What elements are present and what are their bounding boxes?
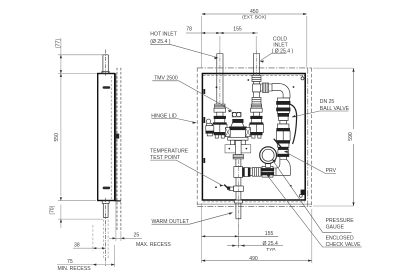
leader pressure gauge	[272, 160, 351, 233]
dim line 450	[202, 13, 307, 15]
svg-text:(EXT. BOX): (EXT. BOX)	[242, 15, 267, 20]
leader PRV	[285, 152, 337, 174]
svg-text:( Ø 25.4 ): ( Ø 25.4 )	[272, 48, 294, 54]
arrows 78	[202, 32, 206, 34]
side view bottom outlet pipe	[102, 201, 109, 218]
svg-text:TEMPERATURE: TEMPERATURE	[150, 148, 189, 154]
ext lines 590	[313, 68, 354, 206]
lid phantom outline	[197, 68, 311, 207]
leader DN25 ball valve	[292, 111, 348, 117]
branch ribbed union	[262, 83, 268, 92]
side view top pipe flange	[102, 72, 109, 74]
leader warm outlet	[152, 213, 233, 225]
svg-text:TEST POINT: TEST POINT	[150, 155, 180, 161]
wall front face dashed lines	[116, 68, 118, 230]
ext/dim lines 78 & 155 top	[220, 36, 256, 52]
ext line box top left	[58, 73, 97, 75]
hot side drain tap	[206, 119, 214, 136]
leader temperature test point	[150, 160, 220, 184]
svg-text:490: 490	[249, 256, 258, 262]
cold ribbed coupling	[252, 97, 261, 104]
temperature test point stub	[229, 187, 234, 191]
tee right union nut	[243, 168, 250, 177]
pressure gauge	[260, 147, 277, 164]
svg-text:590: 590	[348, 132, 354, 141]
bottom-left recess dimensions	[57, 202, 142, 267]
arrows 490	[202, 260, 206, 262]
ball valve handle	[289, 104, 297, 144]
door latch on side view	[115, 134, 119, 139]
ext lines bottom 155	[202, 203, 239, 263]
leader hot inlet	[150, 44, 217, 57]
hot inlet valve stack	[213, 104, 227, 138]
enclosed check valve	[262, 166, 273, 177]
cold tee to branch	[253, 84, 261, 92]
lid catch top right	[301, 75, 304, 80]
svg-text:HINGE LID: HINGE LID	[151, 113, 177, 119]
arrowhead test point	[220, 184, 224, 186]
arrows 25 (outside)	[113, 237, 116, 239]
warm outlet pipe mid	[236, 177, 241, 186]
dimension line vertical 550 chain	[60, 38, 62, 228]
svg-text:[70]: [70]	[50, 205, 56, 214]
dim line bottom 155	[202, 235, 278, 237]
dim line 490	[202, 260, 312, 262]
arrows 38	[93, 247, 96, 249]
column union nut	[278, 113, 289, 116]
svg-text:550: 550	[54, 133, 60, 142]
svg-text:25: 25	[134, 232, 140, 238]
gauge stub	[266, 163, 271, 167]
lid lock bottom right	[299, 190, 306, 198]
screw dots inside box	[215, 79, 294, 188]
side view top inlet pipe	[103, 55, 108, 74]
svg-text:ENCLOSED: ENCLOSED	[326, 235, 354, 241]
arrow at box-bottom ext	[60, 197, 62, 200]
arrows at box-top ext	[60, 70, 62, 73]
arrows 450	[202, 13, 206, 15]
svg-text:155: 155	[233, 27, 242, 33]
side view door bottom tick	[115, 200, 121, 202]
svg-text:155: 155	[265, 231, 274, 237]
side view bottom pipe centerline	[105, 198, 107, 266]
ext line pipe bottom left	[58, 218, 103, 220]
upper pipe clamp on side panel	[103, 86, 111, 89]
arrow at pipe-bottom ext	[60, 219, 62, 222]
side view door front line	[115, 74, 117, 202]
side view top pipe centerline	[105, 50, 107, 77]
hinge knuckle marks left edge	[203, 89, 205, 163]
cold pipe below tee	[253, 92, 259, 97]
dim line dia 25.4	[227, 245, 283, 247]
arrows 155 bottom	[202, 235, 206, 237]
svg-text:78: 78	[186, 27, 192, 33]
svg-text:COLD: COLD	[273, 36, 287, 42]
arrows 155 top	[220, 32, 224, 34]
hot inlet pipe	[217, 54, 223, 105]
warm outlet centerline	[237, 160, 239, 247]
cold pipe segment	[253, 82, 259, 85]
cold inlet pipe	[253, 54, 259, 76]
side view door inner hidden line	[110, 76, 112, 199]
hot pipe centerline	[219, 51, 221, 113]
arrowhead pressure gauge	[272, 159, 276, 162]
DN25 ball valve	[277, 98, 289, 113]
dim line 25 max recess	[109, 237, 142, 239]
svg-text:BALL VALVE: BALL VALVE	[320, 106, 350, 112]
leader enclosed check valve	[267, 175, 362, 247]
column lower hex	[278, 150, 289, 155]
svg-text:(Ø 25.4 ): (Ø 25.4 )	[150, 39, 170, 45]
branch elbow	[272, 84, 290, 98]
arrowhead cold inlet	[260, 61, 264, 63]
svg-text:75: 75	[67, 259, 73, 265]
dim line 590	[353, 68, 355, 206]
arrows 75	[93, 264, 96, 266]
side view box body	[98, 74, 115, 201]
outlet short pipe	[236, 159, 241, 167]
arrows 590	[352, 68, 354, 72]
TMV 2500 mixing valve	[225, 112, 250, 144]
arrowhead PRV	[284, 151, 288, 153]
warm outlet pipe lower	[236, 192, 241, 201]
leader cold inlet	[260, 53, 286, 61]
svg-text:MIN. RECESS: MIN. RECESS	[58, 266, 92, 272]
column pipe	[280, 121, 287, 124]
arrowhead DN25	[292, 115, 296, 117]
ext line for 38 left	[92, 225, 94, 251]
arrowhead check valve	[266, 174, 270, 177]
svg-text:GAUGE: GAUGE	[326, 224, 345, 230]
svg-text:CHECK VALVE: CHECK VALVE	[326, 242, 362, 248]
branch horizontal pipe to right column	[260, 84, 272, 91]
svg-text:WARM OUTLET: WARM OUTLET	[152, 219, 189, 225]
svg-text:[77]: [77]	[56, 39, 62, 48]
bottom elbow to horizontal run	[276, 160, 290, 176]
cold collar below box top	[252, 75, 261, 81]
ext line box bottom left	[58, 200, 96, 202]
dim line 75 min recess	[57, 264, 115, 266]
arrowhead warm outlet	[229, 212, 233, 214]
column hex	[279, 116, 288, 120]
cold pipe centerline	[256, 51, 258, 113]
outlet ribbed fitting	[233, 155, 243, 159]
ext lines 25	[115, 202, 117, 241]
TMV mounting plate	[225, 145, 251, 153]
outlet tee	[234, 167, 243, 178]
svg-text:TMV 2500: TMV 2500	[154, 76, 178, 82]
column lower pipe	[280, 157, 287, 160]
run ribbed coupling	[252, 168, 261, 177]
ext lines 490	[311, 209, 313, 263]
PRV	[274, 124, 290, 150]
ext line 75 right	[114, 245, 116, 267]
warm outlet pipe below box	[236, 200, 241, 219]
front box	[202, 74, 305, 201]
svg-text:MAX. RECESS: MAX. RECESS	[136, 242, 171, 248]
arrowhead TMV	[228, 110, 232, 112]
side view bottom pipe hidden extension	[103, 220, 108, 259]
svg-text:TYP.: TYP.	[266, 247, 276, 252]
test point cross fitting	[234, 186, 244, 192]
dim line 38	[73, 247, 106, 249]
TMV outlet pipe upper	[236, 141, 242, 155]
ext line pipe top	[58, 54, 103, 56]
leader TMV 2500	[152, 81, 231, 110]
svg-text:HOT INLET: HOT INLET	[150, 31, 177, 37]
svg-text:PRV: PRV	[326, 168, 337, 174]
horizontal run pipe	[249, 168, 277, 175]
svg-text:PRESSURE: PRESSURE	[326, 218, 355, 224]
lower pipe clamp on side panel	[103, 187, 111, 190]
arrowhead hinge lid	[192, 122, 196, 124]
svg-text:38: 38	[74, 243, 80, 249]
cold inlet valve stack	[249, 104, 263, 138]
leader hinge lid	[151, 118, 195, 122]
svg-text:DN 25: DN 25	[320, 99, 335, 105]
arrowhead hot inlet	[214, 57, 218, 59]
arrows dia (outside)	[232, 245, 236, 247]
arrow at pipe-top ext	[60, 55, 62, 58]
ext lines 450	[202, 16, 307, 68]
